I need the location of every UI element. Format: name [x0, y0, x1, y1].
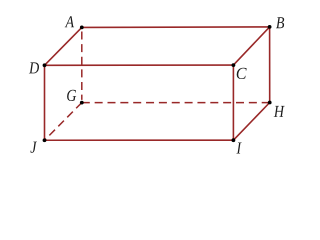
label I: [236, 143, 241, 154]
node J dot: [43, 138, 47, 142]
wire edge BH (back right vertical): [269, 27, 271, 103]
label G: [67, 90, 76, 101]
wire edge CI (front right vertical): [232, 65, 234, 140]
label B: [276, 17, 284, 28]
node I dot: [232, 138, 236, 142]
label H: [274, 106, 285, 117]
node D dot: [43, 63, 47, 67]
label A: [65, 16, 74, 27]
label J: [30, 142, 37, 153]
label C: [237, 68, 247, 79]
label D: [29, 62, 39, 73]
wire edge IH (bottom right slant): [233, 103, 269, 141]
node A dot: [80, 26, 84, 30]
wire hidden edge AG (back left vertical, dashed): [81, 32, 83, 100]
node B dot: [268, 25, 272, 29]
wire hidden edge GJ (bottom left slant, dashed): [45, 103, 82, 141]
wire edge JI (bottom front): [45, 139, 234, 141]
node C dot: [232, 63, 236, 67]
wire edge AD (top left slant): [45, 27, 82, 65]
wire hidden edge GH (bottom back, dashed): [82, 102, 270, 104]
wire edge DJ (front left vertical): [44, 65, 46, 140]
node H dot: [268, 101, 272, 105]
wire edge BC (top right slant): [233, 27, 269, 65]
wire edge DC (top front): [45, 64, 234, 66]
wire edge AB (top back): [82, 26, 270, 29]
node G dot: [80, 101, 84, 105]
